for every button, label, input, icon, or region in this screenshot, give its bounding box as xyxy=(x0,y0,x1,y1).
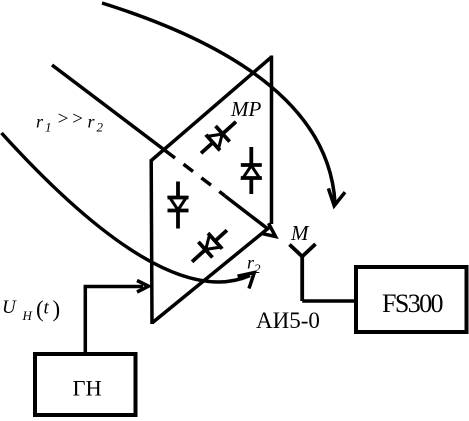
GN box (generator) xyxy=(35,354,136,415)
wire from probe to FS300 xyxy=(302,299,355,303)
svg-text:r: r xyxy=(88,112,96,132)
probe antenna M: right arm xyxy=(302,244,315,257)
svg-text:>: > xyxy=(57,109,70,130)
svg-text:MP: MP xyxy=(230,97,261,121)
arrowhead of incident ray at vertex D xyxy=(261,223,276,236)
diode VD3 (vertical, pointing down) xyxy=(168,182,189,229)
svg-text:1: 1 xyxy=(45,120,52,135)
MP plate: left edge BC xyxy=(149,160,153,325)
diode VD1 (tilted 45 deg, pointing up-right) xyxy=(194,114,243,161)
svg-text:АИ5-0: АИ5-0 xyxy=(256,308,320,333)
MP plate: right edge AD xyxy=(270,56,274,225)
svg-text:U: U xyxy=(2,297,17,318)
incident ray: solid segment to vertex D with arrowhead xyxy=(225,196,268,229)
incident ray: dashed hidden segment xyxy=(184,164,226,196)
diode VD4 (tilted 45 deg, pointing down-left) xyxy=(185,222,234,269)
arrowhead of GN wire xyxy=(137,281,149,293)
wire from GN box up xyxy=(84,287,88,355)
MP plate: edge CD xyxy=(152,226,271,323)
wave arc lower-left (incident ray arc 2) xyxy=(2,133,251,282)
MP plate (parallelogram): edge AB xyxy=(151,57,272,161)
svg-text:Н: Н xyxy=(22,308,33,323)
wire from GN horizontal with arrow into plate xyxy=(84,285,143,289)
svg-text:>: > xyxy=(71,109,84,130)
svg-text:FS300: FS300 xyxy=(382,289,444,318)
incident ray: solid segment upper-left xyxy=(52,65,175,158)
svg-text:): ) xyxy=(53,297,61,322)
svg-text:r2: r2 xyxy=(247,253,261,277)
probe antenna M: left arm xyxy=(290,245,303,257)
arrowhead of r2 arc arrow xyxy=(238,273,255,289)
svg-text:t: t xyxy=(44,298,50,319)
diode VD2 (vertical, pointing up) xyxy=(241,147,262,194)
svg-text:2: 2 xyxy=(97,120,104,135)
arrowhead of top arc xyxy=(328,188,345,205)
probe antenna M: stem xyxy=(300,255,304,301)
svg-text:r: r xyxy=(36,112,44,132)
FS300 box xyxy=(356,267,467,332)
wave arc top (incident ray arc 1) xyxy=(102,3,335,203)
svg-text:ГН: ГН xyxy=(73,376,102,401)
svg-text:M: M xyxy=(290,221,310,245)
